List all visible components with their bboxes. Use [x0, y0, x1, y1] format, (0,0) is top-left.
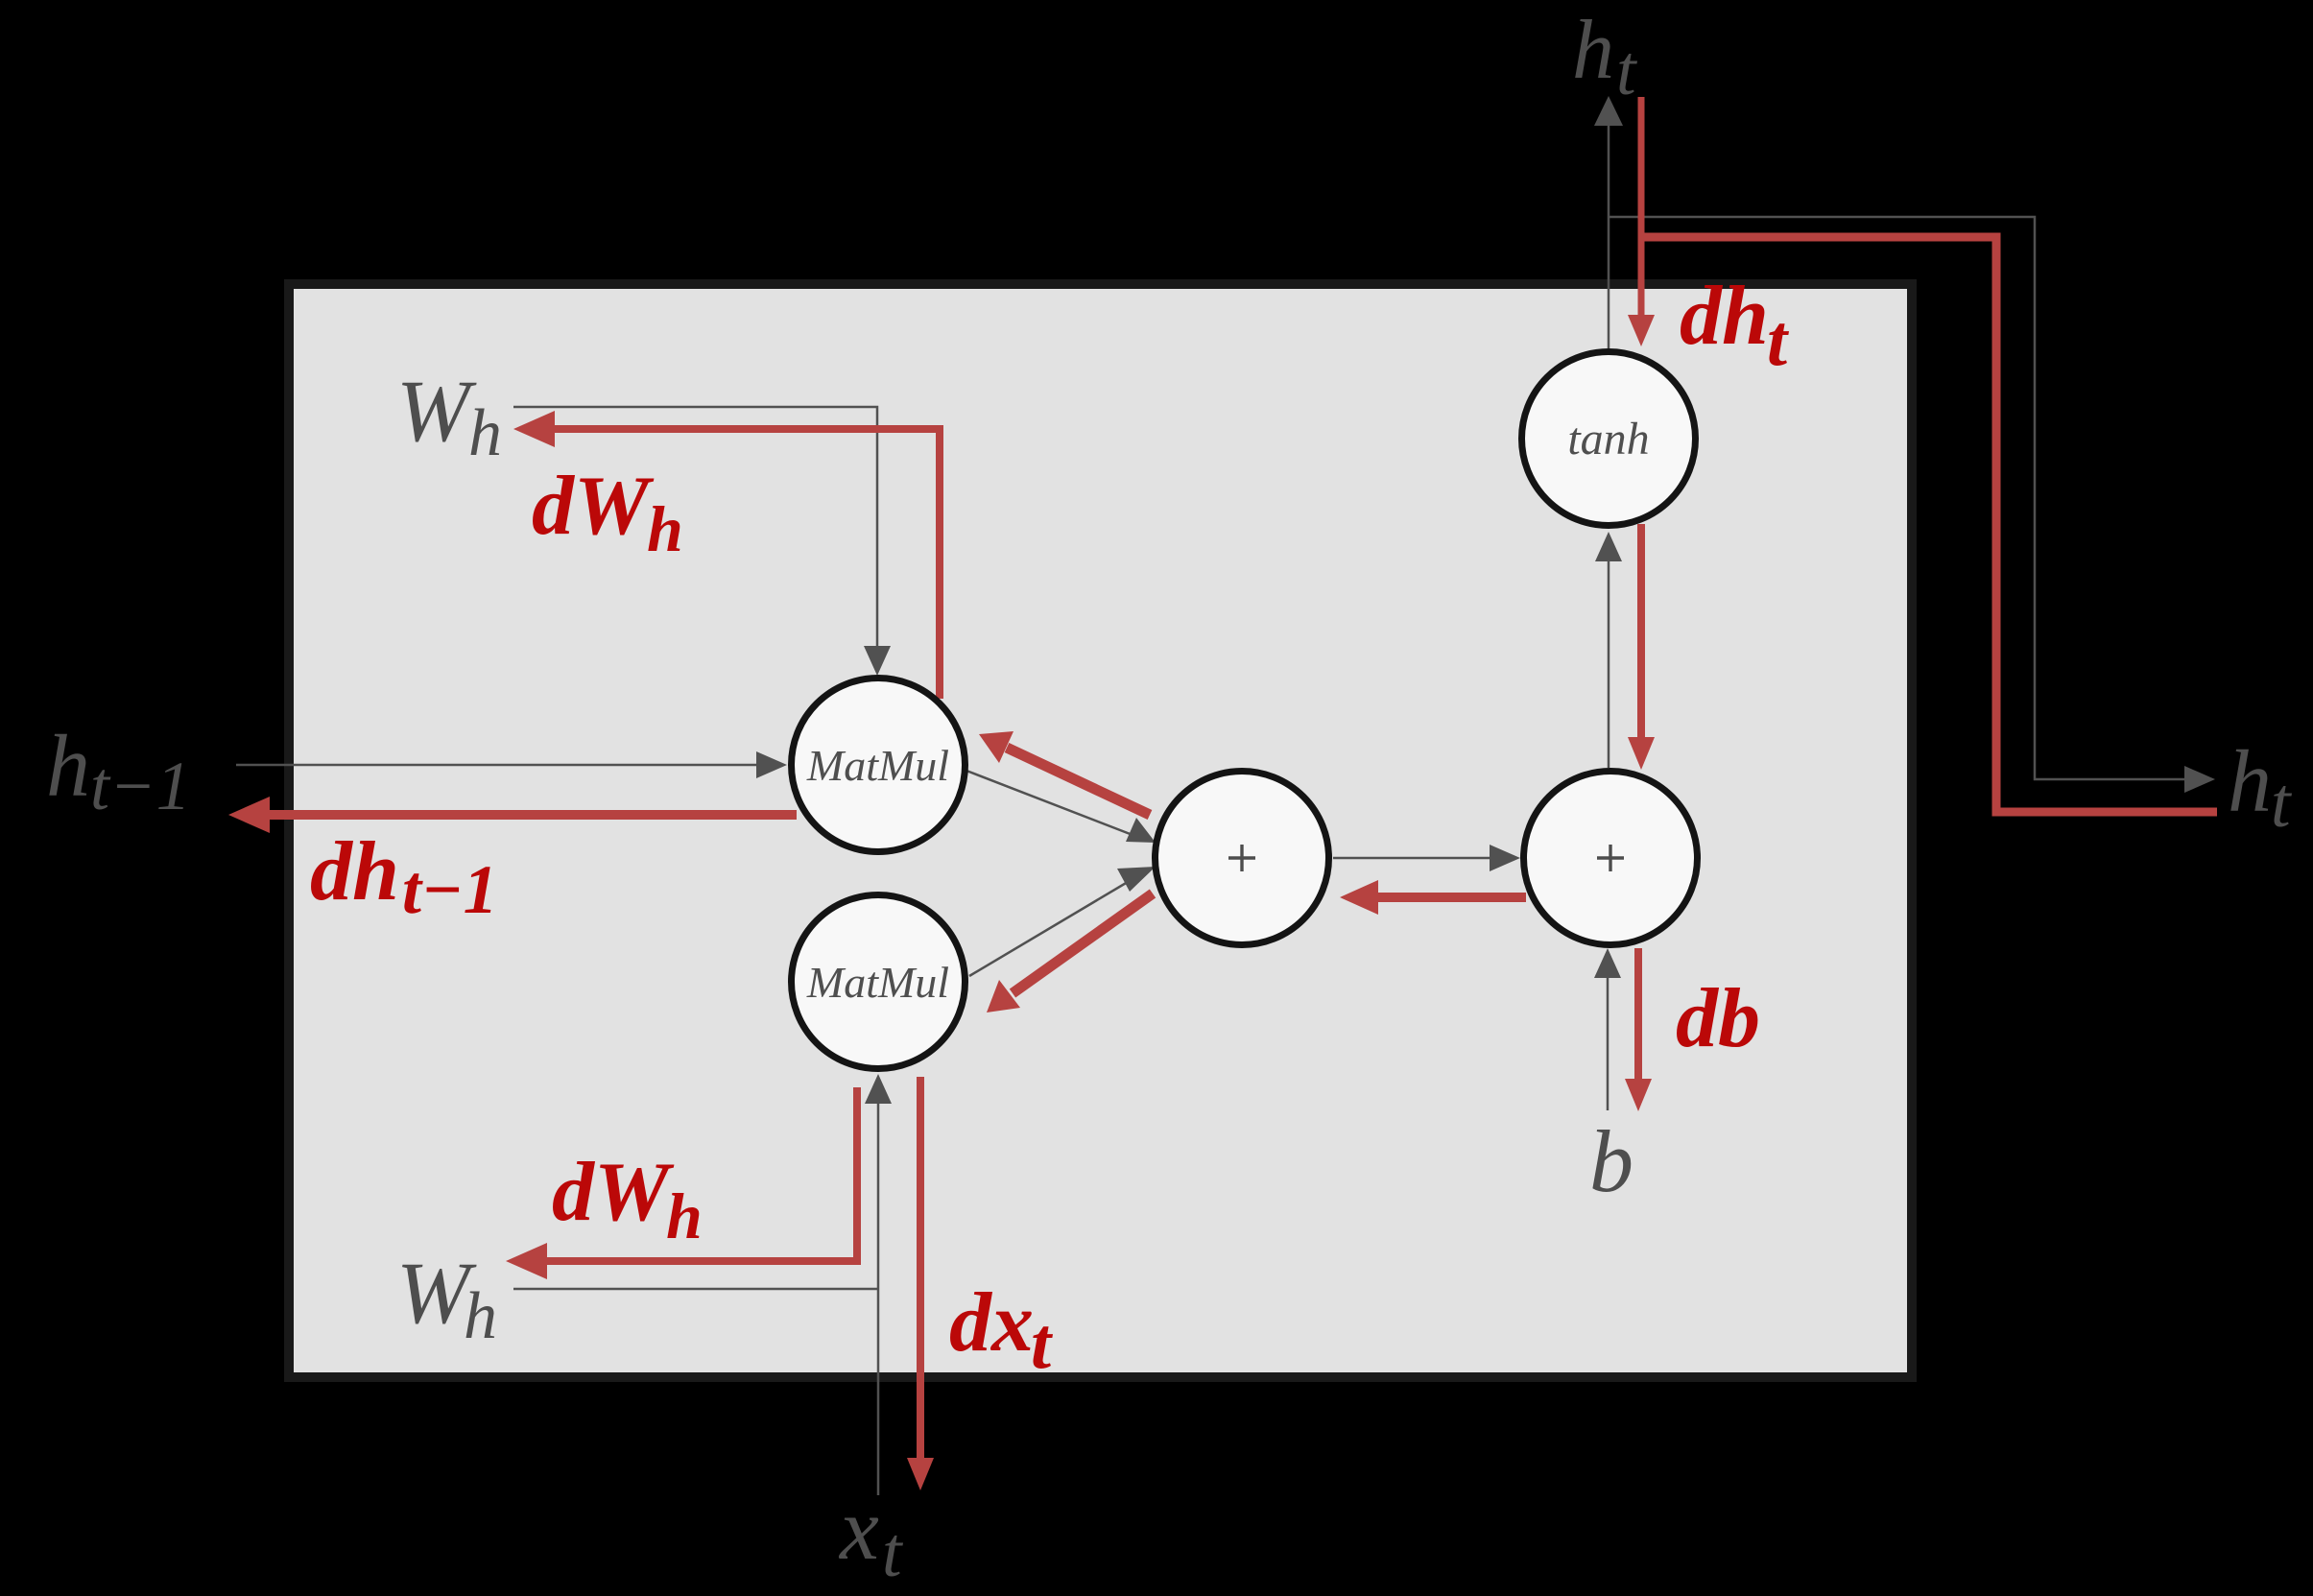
wire: plus1 to MatMul U2 backward diagonal [987, 893, 1153, 1012]
op node: MatMul U2 circle [792, 895, 966, 1069]
wire: db backward down [1625, 948, 1652, 1111]
label x_t [838, 1480, 904, 1592]
svg-text:h: h [464, 1279, 497, 1353]
label db [1676, 972, 1760, 1065]
wire: dW_h top backward [513, 411, 940, 699]
wire: dW_h bottom backward [506, 1087, 857, 1279]
svg-text:dx: dx [949, 1276, 1034, 1370]
label dW_h top [532, 460, 683, 565]
label dW_h bottom [552, 1146, 703, 1252]
svg-text:b: b [1589, 1112, 1633, 1210]
label W_h bottom [396, 1244, 497, 1353]
wire: h_t-1 forward input [236, 751, 787, 778]
wire: plus1 to MatMul U1 backward diagonal [979, 731, 1150, 815]
wire: MatMul U2 to plus1 forward [969, 867, 1156, 976]
label h_t top [1572, 4, 1638, 110]
svg-text:t: t [1767, 300, 1790, 381]
svg-text:h: h [666, 1179, 703, 1252]
svg-text:MatMul: MatMul [806, 958, 949, 1007]
svg-text:h: h [46, 717, 90, 815]
svg-text:t: t [882, 1513, 904, 1592]
wire: x_t forward input and W_h bottom forward [513, 1074, 892, 1495]
wire: plus1 to plus2 forward [1333, 845, 1520, 871]
svg-text:h: h [647, 492, 683, 565]
wire: tanh to plus2 backward [1628, 524, 1655, 770]
svg-text:t: t [1616, 32, 1638, 110]
svg-text:t: t [1031, 1303, 1054, 1384]
svg-text:dh: dh [1680, 270, 1769, 363]
op node: plus 1 [1156, 772, 1329, 945]
svg-text:t−1: t−1 [90, 748, 191, 824]
svg-text:x: x [838, 1480, 879, 1578]
svg-text:tanh: tanh [1567, 414, 1649, 465]
label W_h top [396, 362, 502, 470]
label b [1589, 1112, 1633, 1210]
svg-text:W: W [396, 362, 477, 460]
label h_t right [2228, 732, 2293, 843]
svg-text:h: h [1572, 4, 1614, 97]
wire: dh_t backward into tanh, with branch right to h_t output [1628, 97, 2217, 812]
svg-text:MatMul: MatMul [806, 741, 949, 790]
svg-text:h: h [468, 396, 502, 470]
wire: plus2 to plus1 backward [1340, 880, 1526, 915]
wire: tanh to h_t output up, with branch right to h_t [1594, 96, 2215, 793]
svg-text:h: h [2228, 732, 2272, 830]
label dx_t [949, 1276, 1054, 1384]
svg-text:db: db [1676, 972, 1760, 1065]
svg-text:t−1: t−1 [402, 851, 498, 928]
svg-text:dW: dW [532, 460, 655, 553]
wire: MatMul U1 to plus1 forward [966, 771, 1156, 843]
RNN cell box [289, 284, 1912, 1377]
wire: W_h top forward into MatMul U1 [513, 407, 891, 676]
svg-text:dh: dh [310, 825, 399, 918]
op node: tanh circle [1522, 352, 1696, 526]
wire: plus2 to tanh forward [1595, 532, 1622, 768]
svg-text:t: t [2271, 764, 2293, 843]
wire: b forward input into plus2 [1594, 948, 1621, 1110]
wire: dh_t-1 backward output left [228, 797, 797, 833]
wire: dx_t backward output down [907, 1077, 934, 1490]
label dh_t [1680, 270, 1790, 381]
op node: MatMul U1 circle [792, 679, 966, 852]
label dh_t-1 [310, 825, 498, 928]
label h_t-1 [46, 717, 191, 824]
svg-text:dW: dW [552, 1146, 675, 1239]
op node: plus 2 [1524, 772, 1698, 945]
